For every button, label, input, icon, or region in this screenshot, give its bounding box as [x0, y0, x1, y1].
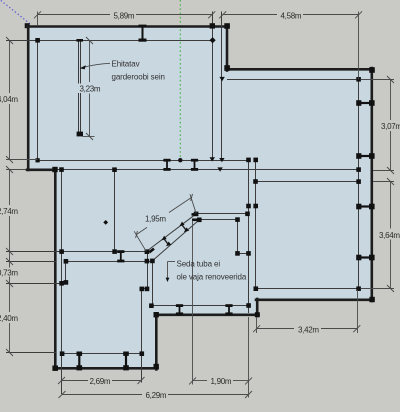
window marker top wall x142.5: [139, 25, 147, 42]
dimension 1,90m: [189, 221, 252, 398]
svg-text:2,40m: 2,40m: [0, 314, 18, 323]
annotation seda tuba: [166, 260, 247, 283]
inner face left wall: [37, 41, 39, 161]
inner face bottom of top-left room: [37, 160, 249, 162]
wall left exterior lower: [54, 169, 57, 370]
inner face middle room south y305.6: [152, 305, 249, 307]
diagonal jamb 1: [162, 236, 172, 247]
diamond node x212.6 y40: [209, 37, 215, 43]
dimension 1,95m diagonal: [134, 194, 196, 251]
inner face right wall x358.6: [358, 80, 360, 289]
inner face middle room west x152.2: [152, 262, 154, 306]
wall line y219.8: [199, 219, 238, 221]
triangle node x222 y79: [219, 77, 224, 81]
inner face top wall / extension 4,04m+3,23m: [6, 40, 213, 42]
wall face x237.6: [237, 220, 239, 254]
dimension 3,07m: [361, 76, 400, 174]
extension 0,73m top: [6, 261, 56, 263]
svg-text:5,89m: 5,89m: [114, 11, 135, 20]
svg-text:ole vaja renoveerida: ole vaja renoveerida: [177, 273, 247, 282]
dimension 2,74m: [0, 166, 26, 255]
dimension 3,64m: [361, 178, 400, 292]
node markers: [35, 23, 375, 371]
wall bottom exterior: [54, 367, 157, 370]
diagonal wall inner: [152, 220, 199, 261]
svg-text:3,64m: 3,64m: [379, 231, 400, 240]
wall south of middle room: [155, 313, 258, 316]
dimension 6,29m: [59, 391, 253, 400]
wall south of bottom-right room: [256, 298, 373, 301]
window rung right wall y257.5: [356, 255, 374, 261]
wall left exterior upper: [27, 25, 30, 170]
window rung right wall y156: [356, 153, 374, 159]
wall step vertical at x227: [226, 25, 229, 70]
inner face bottom-right room south y288.7: [256, 288, 359, 290]
inner face bottom-left room south y353.6: [62, 353, 142, 355]
svg-text:4,58m: 4,58m: [281, 11, 302, 20]
triangle node x221.8 y160: [219, 158, 224, 162]
window rung bottom wall x126: [123, 352, 129, 371]
svg-text:0,73m: 0,73m: [0, 269, 18, 278]
blue construction line: [0, 0, 31, 25]
wall face x147: [147, 252, 149, 289]
dimension 0,73m: [0, 252, 18, 288]
dimension 3,23m: [78, 37, 102, 140]
wall face x212.3: [212, 12, 214, 160]
dimension 4,58m: [219, 11, 362, 79]
wall south of top-left room west stub: [27, 169, 56, 172]
svg-text:6,29m: 6,29m: [146, 391, 167, 400]
diamond point hallway: [103, 220, 108, 225]
svg-text:1,95m: 1,95m: [145, 215, 166, 224]
inner face bottom-left room east x141.8: [141, 289, 143, 383]
interior wall x255.7: [255, 161, 257, 289]
inner face hallway west x61.5: [61, 170, 63, 395]
svg-text:Ehitatav: Ehitatav: [112, 60, 140, 69]
svg-text:garderoobi sein: garderoobi sein: [112, 73, 165, 82]
door jamb x229: [225, 304, 232, 315]
svg-text:3,23m: 3,23m: [80, 85, 101, 94]
annotation ehitatav garderoobi sein: [80, 60, 165, 82]
window rung right wall y206.5: [356, 204, 374, 210]
dimension 2,69m: [58, 377, 145, 386]
garderoobi wall double line: [76, 39, 83, 136]
door jamb cap upper inner: [192, 219, 198, 222]
dimension 4,04m: [0, 37, 38, 163]
dimension 2,40m: [0, 284, 18, 357]
dimension 3,42m: [253, 290, 360, 334]
wall right exterior: [370, 68, 373, 301]
svg-text:2,74m: 2,74m: [0, 207, 18, 216]
wall top exterior: [27, 25, 228, 28]
diagonal jamb 2: [179, 222, 189, 233]
window rung right wall y103: [356, 100, 374, 106]
door jamb cap lower diagonal: [149, 249, 154, 253]
wall line y253.3: [238, 253, 249, 255]
wall between right rooms y181.5: [254, 181, 359, 183]
door jamb x167: [163, 159, 170, 171]
wall top of right room: [226, 68, 373, 71]
green endpoint dot: [178, 158, 182, 162]
floor fill: [27, 25, 373, 369]
wall line y251.6 with dim extension: [6, 251, 147, 253]
top wall of bottom-left room y261: [66, 261, 153, 263]
jog line y288.9: [142, 288, 148, 290]
svg-text:3,07m: 3,07m: [381, 122, 400, 131]
svg-text:3,42m: 3,42m: [298, 325, 319, 334]
door jamb x194.5: [191, 159, 198, 171]
wall line y213.8: [196, 213, 248, 215]
svg-text:1,90m: 1,90m: [211, 377, 232, 386]
svg-text:4,04m: 4,04m: [0, 95, 18, 104]
svg-text:Seda tuba ei: Seda tuba ei: [177, 260, 221, 269]
corner node top-left: [25, 23, 30, 28]
door jamb x120.8: [117, 250, 124, 262]
green construction line: [179, 0, 181, 160]
diagonal wall outer: [146, 214, 196, 252]
interior wall x248.5: [248, 161, 250, 314]
wall face x221.8: [221, 12, 223, 161]
svg-text:2,69m: 2,69m: [90, 377, 111, 386]
inner face top of right room y79.3: [227, 79, 359, 81]
door stub x65.8: [65, 262, 67, 283]
extension y352.8: [6, 352, 56, 354]
wall east of bottom-left block: [155, 315, 158, 370]
door jamb cap upper outer: [192, 213, 197, 216]
hallway band lower line y169.5: [56, 169, 359, 171]
hallway partition x114.6: [114, 170, 116, 252]
wall step vertical at x257: [256, 299, 259, 316]
window rung bottom wall x79.3: [77, 352, 83, 371]
triangle node x212 y159: [210, 157, 216, 161]
door jamb x179.5: [176, 304, 183, 315]
triangle node x220 y169.5: [217, 167, 222, 171]
dimension 5,89m: [34, 11, 215, 25]
extension y283: [6, 283, 62, 285]
